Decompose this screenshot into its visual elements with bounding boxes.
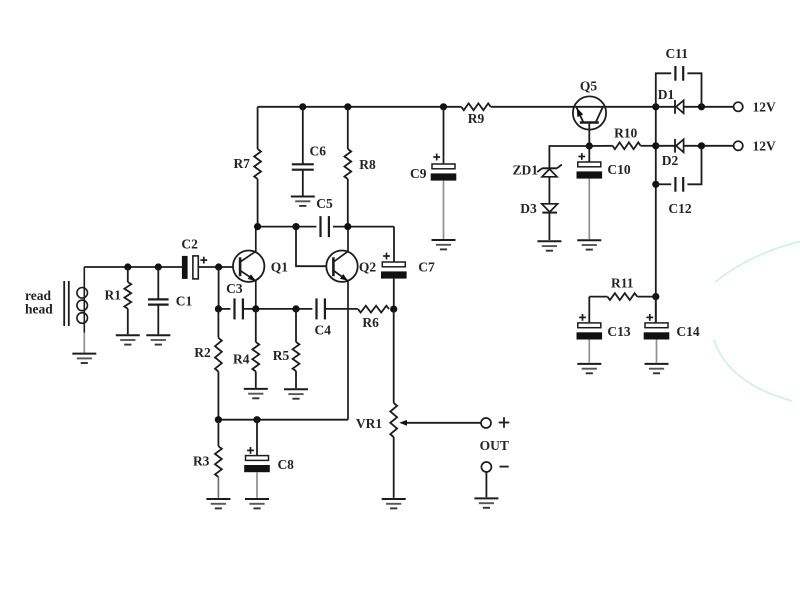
ground for C6: [291, 196, 315, 198]
ground for C9: [432, 239, 456, 241]
ground for C13: [577, 363, 601, 365]
svg-text:C2: C2: [181, 236, 198, 251]
svg-text:R7: R7: [233, 156, 250, 171]
diode D2: [656, 145, 675, 147]
svg-text:12V: 12V: [753, 138, 777, 153]
capacitor C10 electrolytic: [588, 146, 590, 162]
resistor R10: [589, 145, 612, 147]
node at C1 top: [155, 263, 162, 270]
capacitor C6: [302, 107, 304, 164]
transistor Q1: [233, 251, 264, 282]
resistor R6: [358, 306, 389, 313]
svg-text:Q1: Q1: [271, 260, 289, 275]
potentiometer VR1: [393, 309, 395, 403]
svg-text:D3: D3: [520, 201, 537, 216]
svg-text:C3: C3: [226, 281, 243, 296]
capacitor C4: [315, 298, 317, 319]
capacitor C12 bracket: [656, 183, 671, 185]
bus wire bottom: [218, 419, 348, 421]
main right vertical wire: [655, 107, 657, 323]
resistor R11: [589, 296, 607, 298]
node R5 top: [292, 305, 299, 312]
node D1 cathode: [698, 103, 705, 110]
svg-text:C1: C1: [176, 294, 193, 309]
svg-text:R10: R10: [614, 126, 637, 141]
ground for R4: [244, 388, 268, 390]
svg-text:C11: C11: [665, 46, 688, 61]
node R8/Q2 collector: [344, 223, 351, 230]
svg-text:R11: R11: [611, 276, 634, 291]
svg-text:C7: C7: [418, 260, 435, 275]
plus mark C2: [200, 259, 207, 261]
inductor L1 read-head coil: [83, 267, 85, 333]
node C3 left: [215, 305, 222, 312]
node R8 top: [344, 103, 351, 110]
node Q5 emitter / R10 / C10: [586, 142, 593, 149]
ground for R1: [116, 334, 140, 336]
node R11: [652, 293, 659, 300]
svg-text:C12: C12: [668, 201, 691, 216]
svg-text:R2: R2: [194, 345, 211, 360]
resistor R5: [295, 309, 297, 342]
svg-text:R8: R8: [359, 157, 376, 172]
svg-text:head: head: [25, 302, 53, 317]
node at R1 top: [124, 263, 131, 270]
diode D1: [674, 100, 676, 114]
top supply rail: [258, 106, 462, 108]
terminal OUT plus: [481, 418, 491, 428]
resistor R4: [255, 309, 257, 342]
capacitor C2 electrolytic: [182, 256, 188, 279]
svg-text:C14: C14: [676, 324, 699, 339]
node C8 top: [253, 416, 260, 423]
ground for VR1: [382, 498, 406, 500]
ground for coil: [72, 353, 96, 355]
resistor R9: [461, 103, 490, 110]
capacitor C1: [157, 267, 159, 299]
faint watermark arc lower: [714, 340, 792, 401]
coil ground stub: [83, 333, 85, 353]
terminal 12V lower: [734, 141, 743, 150]
svg-text:C8: C8: [277, 457, 294, 472]
minus sign OUT: [500, 466, 509, 468]
zener diode ZD1: [542, 167, 557, 169]
node C6 top: [299, 103, 306, 110]
C3 row wire: [218, 308, 230, 310]
svg-text:C5: C5: [316, 196, 333, 211]
wire input row: [84, 266, 182, 268]
wire OUT minus to ground: [485, 472, 487, 497]
faint watermark arc upper: [715, 241, 800, 282]
diode D3: [542, 204, 558, 212]
svg-text:C4: C4: [315, 323, 332, 338]
ground for C10: [577, 239, 601, 241]
capacitor C14 electrolytic: [655, 297, 657, 323]
row2 wire with C5: [258, 226, 317, 228]
svg-text:OUT: OUT: [480, 438, 509, 453]
resistor R3: [217, 420, 219, 447]
resistor R2: [217, 309, 219, 338]
wire R11 left corner down: [588, 297, 590, 323]
read head core lines: [63, 281, 65, 326]
node C12 tap: [652, 181, 659, 188]
ground for R5: [284, 388, 308, 390]
svg-text:R9: R9: [468, 111, 485, 126]
svg-text:12V: 12V: [753, 99, 777, 114]
svg-text:C6: C6: [310, 144, 327, 159]
capacitor C11 bracket: [656, 73, 671, 107]
svg-text:R4: R4: [233, 351, 250, 366]
capacitor C3: [233, 298, 235, 319]
node R6/C7/VR1: [390, 306, 397, 313]
node Q1 base / R2 top: [215, 263, 222, 270]
transistor Q5: [573, 96, 606, 129]
ground for C8: [245, 498, 269, 500]
ground for OUT minus: [474, 497, 498, 499]
node R7/Q1 collector: [254, 223, 261, 230]
capacitor C5: [319, 216, 321, 237]
node D2 cathode: [698, 142, 705, 149]
svg-text:Q5: Q5: [580, 79, 598, 94]
capacitor C8 electrolytic: [256, 420, 258, 456]
node R10/D2: [652, 142, 659, 149]
svg-text:D1: D1: [658, 87, 675, 102]
resistor R1: [127, 267, 129, 282]
terminal 12V upper: [734, 102, 743, 111]
ground for ZD1/D3: [537, 240, 561, 242]
svg-text:ZD1: ZD1: [513, 163, 539, 178]
ground for R3: [206, 498, 230, 500]
capacitor C9 electrolytic: [443, 107, 445, 164]
plus sign OUT: [499, 422, 510, 424]
svg-text:C10: C10: [607, 162, 630, 177]
resistor R8: [347, 107, 349, 149]
ground for C14: [645, 363, 669, 365]
node R3 top: [215, 416, 222, 423]
svg-text:Q2: Q2: [359, 260, 377, 275]
wire Q2 base L: [296, 227, 326, 267]
ground for C1: [146, 334, 170, 336]
capacitor C13 electrolytic: [578, 323, 601, 328]
svg-text:D2: D2: [662, 153, 679, 168]
VR1 wiper arrow: [405, 422, 481, 424]
terminal OUT minus: [481, 462, 491, 472]
node C9/R9: [440, 103, 447, 110]
svg-text:R6: R6: [362, 315, 379, 330]
svg-text:R1: R1: [105, 288, 122, 303]
transistor Q2: [326, 251, 357, 282]
svg-text:C13: C13: [607, 324, 630, 339]
svg-text:R5: R5: [273, 348, 290, 363]
wire C2 to Q1 base: [198, 266, 233, 268]
wire node down to C3 row: [218, 267, 220, 309]
wire row2 corner down to C7: [393, 227, 395, 262]
node Q2 base tap: [292, 223, 299, 230]
capacitor C7 electrolytic: [382, 262, 405, 267]
svg-text:C9: C9: [410, 166, 427, 181]
svg-text:R3: R3: [193, 454, 210, 469]
node D1 anode: [652, 103, 659, 110]
resistor R7: [257, 107, 259, 149]
node Q1 emitter / R4: [252, 305, 259, 312]
svg-text:VR1: VR1: [356, 416, 382, 431]
wire node to ZD1: [549, 146, 589, 168]
